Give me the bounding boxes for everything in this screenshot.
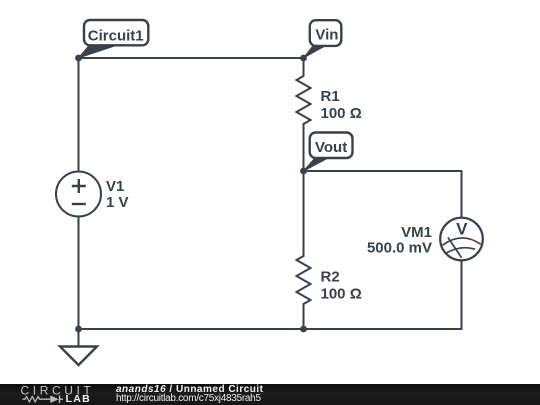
resistor R1 xyxy=(297,58,362,171)
svg-text:Vin: Vin xyxy=(315,26,338,43)
svg-text:V1: V1 xyxy=(106,178,124,195)
svg-text:V: V xyxy=(456,220,468,239)
wire voltmeter bottom lead and bottom horizontal ground net xyxy=(79,260,462,329)
node dot Vin xyxy=(300,55,307,62)
svg-text:R1: R1 xyxy=(321,88,340,105)
svg-text:LAB: LAB xyxy=(66,393,91,405)
node dot ground-left junction xyxy=(75,326,82,333)
voltage source V1 xyxy=(56,172,129,217)
voltmeter VM1 xyxy=(367,218,483,261)
wire Vout horizontal and voltmeter top lead xyxy=(304,171,462,218)
svg-text:VM1: VM1 xyxy=(401,224,432,241)
ground xyxy=(60,329,97,365)
svg-text:Circuit1: Circuit1 xyxy=(88,28,144,45)
node dot A (Circuit1) xyxy=(75,55,82,62)
node label Vin xyxy=(304,20,342,58)
svg-text:100 Ω: 100 Ω xyxy=(321,105,362,122)
svg-text:500.0 mV: 500.0 mV xyxy=(367,240,432,257)
wire left vertical bottom (V1 minus terminal to ground net) xyxy=(78,217,80,330)
svg-text:Vout: Vout xyxy=(315,139,347,156)
wire top horizontal Circuit1/Vin net xyxy=(79,57,304,59)
wire left vertical top (node A to V1 plus terminal) xyxy=(78,58,80,172)
node label Circuit1 xyxy=(79,20,149,58)
resistor R2 xyxy=(297,171,362,329)
svg-text:100 Ω: 100 Ω xyxy=(321,285,362,302)
node dot Vout xyxy=(300,168,307,175)
footer bar xyxy=(0,384,540,405)
svg-text:R2: R2 xyxy=(321,269,340,286)
CircuitLab logo xyxy=(0,384,110,405)
node dot R2-bottom junction xyxy=(300,326,307,333)
node label Vout xyxy=(304,133,353,172)
svg-text:1 V: 1 V xyxy=(106,194,129,211)
footer credits text xyxy=(116,384,264,404)
